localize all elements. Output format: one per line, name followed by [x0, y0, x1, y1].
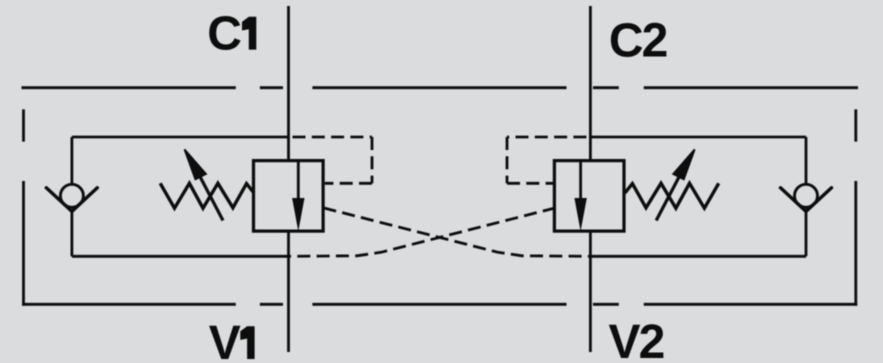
- svg-text:C2: C2: [609, 14, 667, 67]
- check valve left (circle in vee seat): [46, 184, 97, 211]
- svg-text:V2: V2: [609, 316, 664, 363]
- cross pilot line (dashed) from left valve to V2 line: [324, 208, 591, 256]
- spring (adjustable) left valve: [160, 183, 254, 208]
- valve body V1 (left counterbalance cartridge): [254, 161, 324, 232]
- adjustment arrow through right spring: [656, 149, 695, 220]
- pilot line (dashed) from C2 to right valve left port: [507, 137, 586, 183]
- flow arrow inside left valve: [292, 161, 304, 232]
- check valve right (circle in vee seat): [781, 184, 832, 211]
- valve body V2 (right counterbalance cartridge): [554, 161, 624, 232]
- enclosure boundary left dashed line: [22, 109, 25, 305]
- wire: right bypass loop: [590, 137, 806, 256]
- flow arrow inside right valve: [574, 161, 586, 232]
- svg-text:V: V: [209, 317, 241, 363]
- wire: C2-V2 main line: [589, 6, 592, 352]
- spring (adjustable) right valve: [625, 183, 719, 208]
- enclosure boundary top dashed line: [22, 86, 859, 89]
- enclosure boundary right dashed line: [854, 109, 857, 305]
- wire: left bypass loop: [72, 137, 289, 256]
- pilot line (dashed) from C1 to left valve right port: [293, 137, 373, 183]
- svg-text:C: C: [207, 8, 242, 61]
- cross pilot line (dashed) from right valve to V1 line: [289, 208, 556, 256]
- wire: C1-V1 main line: [287, 6, 290, 352]
- enclosure boundary bottom dashed line: [22, 303, 857, 306]
- adjustment arrow through left spring: [185, 149, 224, 220]
